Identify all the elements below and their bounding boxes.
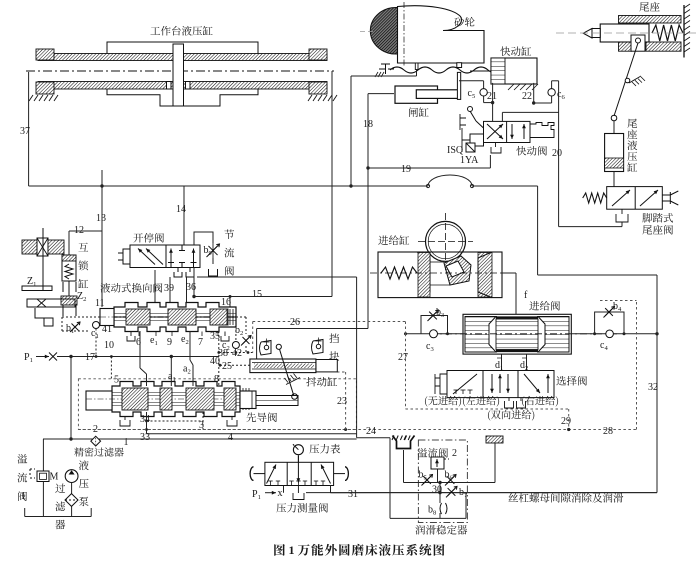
svg-text:2: 2 [452, 448, 457, 459]
feed cylinder spring [381, 267, 417, 279]
ratchet wedge [444, 256, 471, 285]
bottom loop [390, 517, 466, 519]
lube dash-dot box [418, 440, 467, 523]
pilot valve dashed enclosure [78, 379, 356, 430]
tank bracket wide [42, 482, 44, 517]
right cell diagonal arrow [321, 465, 331, 484]
wire 31 bottom [306, 492, 657, 494]
right mount block [457, 63, 462, 68]
left knob [254, 473, 265, 475]
pilot valve label [246, 413, 256, 423]
svg-text:29: 29 [561, 416, 571, 427]
wire down right loop [537, 186, 539, 275]
throttle b1 and check c1 pilot circuit [99, 315, 101, 317]
wheel mount post [415, 63, 418, 70]
hydraulic directional valve spool [114, 303, 236, 332]
svg-text:23: 23 [337, 396, 347, 407]
start-stop valve label [133, 233, 143, 242]
left top anchor [36, 49, 54, 60]
lube circuit lines [403, 450, 405, 483]
valve bottom tank [293, 486, 304, 500]
spool bottom tank brackets [127, 332, 135, 342]
cylinder centre dash-dot line [26, 70, 334, 72]
foot pedal [662, 191, 678, 205]
right top anchor [309, 49, 327, 60]
svg-text:28: 28 [603, 426, 613, 437]
tailstock centre dashes [556, 32, 698, 34]
svg-text:7: 7 [198, 337, 203, 348]
svg-text:10: 10 [104, 340, 114, 351]
interlock hatched bar right [48, 240, 64, 254]
wire 19 [368, 167, 490, 169]
wire from 17 down to pump [70, 357, 72, 440]
svg-text:x: x [278, 488, 283, 499]
svg-text:21: 21 [487, 91, 497, 102]
relief valve 1 溢流阀 [42, 439, 44, 471]
ground hatch right [308, 95, 312, 101]
hydraulic directional valve label [100, 283, 110, 293]
feed cylinder label [378, 235, 388, 244]
lever pivot hatch [629, 76, 641, 83]
worktable cylinder barrel top wall [38, 54, 327, 61]
right cell arrows [511, 124, 513, 139]
spindle slide block [631, 35, 645, 51]
dashed box around feed circuits [406, 408, 569, 410]
right cell arrows [524, 374, 540, 393]
feed valve spool details [465, 317, 496, 353]
left cell arrows [138, 249, 155, 265]
relief valve 2 溢流阀 2 [417, 448, 427, 458]
pilot valve rod right [240, 391, 256, 409]
grinding wheel outline [398, 6, 485, 63]
worktable bracket [107, 42, 258, 54]
wire from left mount to x351 [416, 70, 418, 77]
dotted wire 25 [220, 364, 250, 366]
wire 24 dotted [78, 429, 636, 431]
valve bottom tank ports [174, 268, 182, 278]
svg-text:1: 1 [289, 543, 295, 557]
pilot valve tank brackets [120, 417, 130, 427]
wire long horizontal y=186 with hop [29, 185, 428, 187]
throttle tank [209, 269, 218, 276]
wire 31 from valve [330, 486, 332, 493]
feed valve right branch with b4 c4 [571, 333, 657, 335]
svg-text:32: 32 [648, 382, 658, 393]
svg-text:35: 35 [210, 331, 220, 342]
right bottom anchor [309, 82, 327, 94]
wire 36 down from valve [193, 268, 195, 297]
svg-text:4: 4 [228, 432, 233, 443]
wire 14 [183, 186, 185, 245]
foot valve tank [616, 209, 628, 222]
suction filter 过滤器 [71, 483, 73, 495]
middle cell gauge arrow [297, 456, 299, 483]
svg-text:19: 19 [401, 164, 411, 175]
feed valve body [463, 314, 571, 354]
svg-text:42: 42 [232, 348, 242, 359]
label 工作台液压缸 [150, 27, 160, 35]
valve left actuator bracket [118, 249, 130, 264]
pressure valve label [276, 503, 286, 512]
dotted 34 3 ports [146, 412, 148, 429]
rapid cylinder 快动缸 [500, 46, 510, 56]
vertical through 30 [439, 483, 441, 504]
wire 12 horizontal [69, 230, 102, 232]
selector bottom tank [505, 398, 514, 408]
figure caption [274, 544, 285, 556]
svg-text:9: 9 [167, 337, 172, 348]
tailstock housing bottom right [646, 42, 681, 51]
valve left solenoid ISQ [470, 134, 484, 146]
svg-text:39: 39 [164, 283, 174, 294]
wire 17 [57, 356, 219, 358]
lever with ball [476, 121, 484, 128]
svg-text:1YA: 1YA [460, 155, 479, 166]
svg-text:17: 17 [85, 352, 95, 363]
interlock cylinder 互锁缸 [78, 243, 88, 252]
wire 13 vertical [101, 170, 103, 307]
left cell [453, 374, 477, 394]
wire 15 [194, 296, 332, 298]
svg-text:22: 22 [522, 91, 532, 102]
right knob [334, 473, 345, 475]
left cell diagonal arrow [267, 465, 277, 484]
pump 液压泵 [65, 470, 78, 483]
svg-text:11: 11 [95, 298, 105, 309]
svg-text:15: 15 [252, 289, 262, 300]
right spring box [530, 123, 554, 138]
lube label [415, 525, 425, 535]
throttle drain line to tank [212, 276, 214, 277]
lower slide bar [61, 296, 77, 305]
precision filter 精密过滤器 [91, 436, 101, 446]
tank symbol top [393, 436, 415, 449]
right cell up arrows [170, 249, 172, 263]
enclosure lines around pressure valve [356, 277, 358, 438]
valve tank bracket [491, 143, 501, 154]
leadscrew label [508, 493, 518, 502]
wire 37 left vertical [28, 72, 30, 186]
pilot valve spool [112, 382, 240, 417]
pressure gauge 压力表 [293, 445, 303, 455]
feed cylinder piston blocks [417, 252, 430, 298]
svg-text:16: 16 [221, 297, 231, 308]
start-stop valve body [130, 245, 200, 268]
belt wavy line [390, 67, 500, 73]
wire 18 [367, 94, 369, 168]
svg-text:34: 34 [140, 414, 150, 425]
svg-text:12: 12 [74, 225, 84, 236]
spool bottom ports [138, 332, 140, 337]
selector left bracket handle [435, 374, 447, 394]
throttle b7 [448, 488, 456, 496]
svg-text:1: 1 [124, 437, 129, 448]
svg-text:14: 14 [176, 204, 186, 215]
svg-text:13: 13 [96, 213, 106, 224]
foot valve spring [583, 193, 607, 203]
right cell blocked port top [181, 245, 183, 251]
wire 18 continuation to stop block [367, 168, 369, 329]
tailstock label [639, 2, 649, 11]
tailstock housing top [619, 16, 682, 24]
wall anchor hatched [486, 436, 503, 443]
dither cylinder 抖动缸 [250, 359, 316, 373]
cylinder centreline [370, 272, 510, 274]
dotted wire 23 [345, 372, 347, 430]
dotted wire 5 [110, 357, 112, 379]
wire 4 [146, 412, 148, 434]
stop blocks 挡块 [329, 333, 339, 343]
svg-text:20: 20 [552, 148, 562, 159]
pressure measuring valve body [265, 462, 334, 485]
wire 27 dashed [405, 334, 407, 409]
feed mode captions [425, 396, 427, 407]
svg-text:31: 31 [348, 489, 358, 500]
throttle valve b9 branch box [194, 232, 213, 245]
check c5 and c6 ports [459, 80, 484, 82]
brake cylinder 闸缸 [395, 86, 438, 103]
worktable cylinder barrel bottom wall [38, 82, 327, 90]
svg-text:18: 18 [363, 119, 373, 130]
wire 16 stub [229, 297, 231, 308]
throttle b9 symbol [212, 243, 214, 258]
interlock x-box [37, 238, 48, 256]
middle cell arrows [491, 374, 493, 393]
wires a1 a2 from above [170, 357, 172, 387]
svg-text:1: 1 [21, 491, 26, 502]
wires start-stop valve to spool [154, 270, 156, 303]
tailstock spindle [600, 24, 649, 42]
svg-text:M: M [50, 472, 59, 483]
rapid valve body [484, 121, 531, 142]
dotted wire 26 [253, 321, 406, 323]
wall hatch ticks [684, 4, 690, 8]
cell port marks [270, 481, 272, 486]
solenoid 1YA square [466, 143, 475, 152]
throttle b5 [423, 476, 431, 484]
feed cylinder body [378, 252, 502, 298]
svg-text:25: 25 [222, 361, 232, 372]
feed valve left branch with b3 c3 [406, 333, 464, 335]
lever pivot hatch [286, 378, 300, 385]
lower L-piece [35, 308, 53, 326]
svg-text:5: 5 [114, 375, 119, 386]
selector valve body [447, 371, 554, 398]
svg-text:26: 26 [290, 317, 300, 328]
piston [173, 44, 184, 106]
wire c6 down to foot valve [558, 81, 560, 227]
svg-text:27: 27 [398, 352, 408, 363]
grinding wheel dark half [370, 7, 397, 54]
throttle b6 [447, 476, 455, 484]
left cell crossed arrows [487, 124, 503, 139]
tailstock spring [652, 25, 683, 41]
svg-text:37: 37 [20, 126, 30, 137]
tailstock cylinder label [627, 119, 637, 128]
lever pivot circle [625, 78, 630, 83]
brake cyl left wire [368, 93, 394, 95]
ground hatch left [29, 95, 33, 101]
rapid cylinder base hatch [508, 84, 514, 90]
interlock handwheel shaft [42, 228, 44, 290]
dither lever [276, 344, 281, 349]
feed valve top port f wire [515, 273, 517, 314]
wire cylinder right port down x=332 [331, 71, 333, 297]
dashed box top right segment [600, 300, 637, 302]
Z2 coupling [63, 282, 76, 292]
foot valve 脚踏式尾座阀 [607, 187, 663, 210]
svg-text:41: 41 [102, 324, 112, 335]
right cell blocked ports bottom [170, 263, 172, 268]
interlock cylinder spring [65, 264, 73, 279]
left belt anchor [379, 64, 394, 74]
lever linkage [614, 43, 638, 116]
pump output line 1 [43, 438, 357, 440]
feed valve bottom ports to selector [501, 354, 503, 370]
left bottom anchor [36, 82, 54, 94]
tailstock right wall [683, 5, 685, 58]
feed cylinder dial circle [426, 221, 466, 261]
svg-text:36: 36 [186, 282, 196, 293]
wire 6 jog down to pilot box [139, 331, 141, 368]
selector valve label [556, 376, 566, 385]
wire from x351 down [350, 76, 352, 186]
brake arm to wheel [457, 72, 460, 99]
svg-text:40: 40 [210, 356, 220, 367]
svg-text:24: 24 [366, 426, 376, 437]
tailstock housing bottom left [619, 42, 632, 51]
tailstock cylinder [613, 121, 615, 133]
feed valve centreline [430, 333, 620, 335]
interlock hatched bar left [22, 240, 37, 254]
throttle b2 and check c2 pilot circuit [232, 316, 246, 318]
